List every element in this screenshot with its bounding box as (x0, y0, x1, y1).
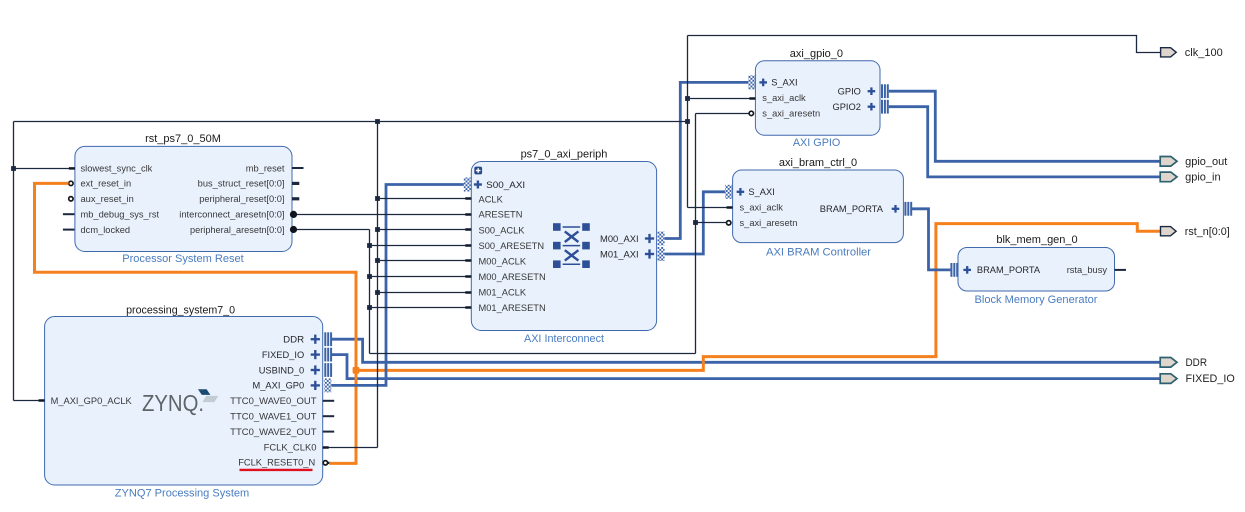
hatch S_AXI axi_bram_ctrl_0 (725, 185, 732, 199)
svg-text:BRAM_PORTA: BRAM_PORTA (977, 265, 1041, 275)
svg-text:M_AXI_GP0_ACLK: M_AXI_GP0_ACLK (51, 396, 133, 406)
wire clock net to s_axi_aclk axi_gpio (688, 97, 756, 100)
pin stub dcm_locked (63, 229, 75, 231)
IP block axi_gpio_0 (AXI GPIO) (755, 48, 880, 149)
hatch DDR (324, 332, 332, 346)
junction aresetn/M00_ARESETN (367, 274, 372, 279)
svg-text:ZYNQ7 Processing System: ZYNQ7 Processing System (115, 487, 250, 499)
svg-text:FIXED_IO: FIXED_IO (1186, 373, 1236, 385)
junction clock/M00_ACLK (375, 258, 380, 263)
svg-text:GPIO2: GPIO2 (832, 102, 860, 112)
svg-text:BRAM_PORTA: BRAM_PORTA (820, 204, 884, 214)
junction clock/M01_ACLK (375, 290, 380, 295)
wire peripheral_aresetn horizontal (292, 229, 370, 231)
svg-text:peripheral_reset[0:0]: peripheral_reset[0:0] (199, 194, 284, 204)
svg-text:aux_reset_in: aux_reset_in (81, 194, 134, 204)
junction clock right/top (685, 119, 690, 124)
pin circle aux_reset_in (69, 197, 73, 201)
svg-text:FIXED_IO: FIXED_IO (262, 350, 304, 360)
svg-text:Block Memory Generator: Block Memory Generator (975, 294, 1098, 306)
hatch BRAM_PORTA axi_bram_ctrl_0 (904, 202, 912, 216)
hatch S00_AXI (464, 178, 471, 192)
wire peripheral_aresetn vertical (369, 230, 371, 354)
red underline FCLK_RESET0_N (240, 469, 313, 471)
svg-text:ACLK: ACLK (479, 194, 504, 204)
svg-text:ARESETN: ARESETN (479, 210, 523, 220)
port rst_n[0:0] (1161, 226, 1230, 238)
svg-text:S00_ARESETN: S00_ARESETN (479, 241, 545, 251)
wire BRAM_PORTA bus (911, 209, 950, 270)
pin stub mb_debug_sys_rst (63, 213, 75, 215)
svg-text:rsta_busy: rsta_busy (1067, 265, 1108, 275)
hatch S_AXI axi_gpio_0 (748, 75, 755, 89)
junction aresetn/s_axi_aresetn bram (693, 220, 698, 225)
svg-text:ps7_0_axi_periph: ps7_0_axi_periph (521, 148, 608, 160)
port gpio_in (1160, 172, 1220, 184)
crossbar icon AXI Interconnect (553, 223, 590, 268)
svg-text:processing_system7_0: processing_system7_0 (126, 304, 235, 316)
svg-text:M00_AXI: M00_AXI (600, 234, 639, 244)
expand button ps7_0_axi_periph (474, 167, 482, 175)
port gpio_out (1160, 156, 1227, 168)
wire clock net to slowest_sync_clk (14, 167, 75, 170)
junction clock/s_axi_aclk gpio (685, 96, 690, 101)
svg-text:s_axi_aresetn: s_axi_aresetn (740, 218, 798, 228)
IP block blk_mem_gen_0 (Block Memory Generator) (958, 234, 1115, 306)
svg-text:M01_ARESETN: M01_ARESETN (479, 303, 546, 313)
output bullet peripheral_aresetn (290, 226, 297, 233)
pin stub TTC0_WAVE1_OUT (323, 415, 335, 417)
svg-text:DDR: DDR (1186, 357, 1208, 369)
wire M00_AXI bus (to axi_gpio S_AXI) (665, 82, 749, 238)
wire clock net to M00_ACLK (378, 259, 472, 262)
svg-text:clk_100: clk_100 (1185, 47, 1223, 59)
hatch USBIND_0 (324, 363, 332, 377)
svg-text:axi_bram_ctrl_0: axi_bram_ctrl_0 (779, 157, 857, 169)
svg-text:s_axi_aclk: s_axi_aclk (762, 93, 806, 103)
hatch BRAM_PORTA blk_mem_gen_0 (950, 263, 958, 277)
svg-text:mb_debug_sys_rst: mb_debug_sys_rst (81, 210, 160, 220)
wire clock net top horizontal (14, 121, 688, 123)
pin stub TTC0_WAVE0_OUT (323, 400, 335, 402)
svg-text:S_AXI: S_AXI (771, 78, 797, 88)
svg-text:M00_ARESETN: M00_ARESETN (479, 272, 546, 282)
port clk_100 (1161, 47, 1223, 59)
svg-text:bus_struct_reset[0:0]: bus_struct_reset[0:0] (198, 179, 285, 189)
svg-text:S00_ACLK: S00_ACLK (479, 225, 526, 235)
svg-text:S_AXI: S_AXI (748, 187, 774, 197)
svg-text:GPIO: GPIO (838, 87, 861, 97)
wire clock net to M_AXI_GP0_ACLK (14, 399, 45, 402)
svg-text:FCLK_CLK0: FCLK_CLK0 (264, 442, 317, 452)
pin stub rsta_busy (1115, 269, 1127, 271)
svg-text:rst_n[0:0]: rst_n[0:0] (1185, 226, 1230, 238)
port FIXED_IO (1160, 373, 1235, 385)
hatch GPIO2 (881, 100, 889, 114)
pin stub bus_struct_reset[0:0] (292, 182, 299, 185)
hatch GPIO (881, 84, 889, 98)
svg-text:AXI Interconnect: AXI Interconnect (524, 333, 605, 345)
svg-text:ext_reset_in: ext_reset_in (81, 179, 132, 189)
IP block axi_bram_ctrl_0 (AXI BRAM Controller) (733, 157, 904, 259)
hatch FIXED_IO (324, 348, 332, 362)
svg-text:gpio_in: gpio_in (1185, 172, 1220, 184)
wire clock net from FCLK_CLK0 (323, 446, 378, 449)
IP block ps7_0_axi_periph (AXI Interconnect) (471, 148, 656, 344)
wire clock net to S00_ACLK (378, 228, 472, 231)
pin circle ext_reset_in (69, 181, 73, 185)
wire peripheral_aresetn to S00_ARESETN (370, 244, 472, 247)
wire M01_AXI bus (to axi_bram_ctrl S_AXI) (665, 192, 726, 254)
junction clock center/top (375, 119, 380, 124)
IP block processing_system7_0 (ZYNQ7 Processing System) (45, 304, 323, 499)
svg-text:gpio_out: gpio_out (1185, 156, 1227, 168)
wire clock net center vertical (377, 122, 379, 448)
hatch M00_AXI (658, 232, 665, 246)
hatch M_AXI_GP0 (324, 378, 331, 392)
svg-text:AXI BRAM Controller: AXI BRAM Controller (766, 247, 871, 259)
svg-text:S00_AXI: S00_AXI (486, 180, 525, 190)
svg-text:Processor System Reset: Processor System Reset (122, 253, 244, 265)
output bullet interconnect_aresetn (290, 211, 297, 218)
wire clock net right vertical (687, 36, 689, 208)
junction aresetn/S00_ARESETN (367, 243, 372, 248)
svg-text:peripheral_aresetn[0:0]: peripheral_aresetn[0:0] (190, 225, 285, 235)
svg-text:blk_mem_gen_0: blk_mem_gen_0 (996, 234, 1077, 246)
svg-text:axi_gpio_0: axi_gpio_0 (790, 48, 843, 60)
svg-text:DDR: DDR (283, 335, 304, 345)
svg-text:M01_ACLK: M01_ACLK (479, 287, 527, 297)
pin stub peripheral_reset[0:0] (292, 197, 299, 200)
pin circle s_axi_aresetn axi_bram_ctrl_0 (727, 221, 731, 225)
svg-text:slowest_sync_clk: slowest_sync_clk (81, 163, 153, 173)
junction orange reset net (353, 367, 360, 374)
svg-text:M00_ACLK: M00_ACLK (479, 256, 527, 266)
svg-text:mb_reset: mb_reset (246, 163, 285, 173)
wire DDR bus to DDR port (331, 339, 1160, 362)
pin stub TTC0_WAVE2_OUT (323, 431, 335, 433)
svg-text:AXI GPIO: AXI GPIO (793, 137, 841, 149)
junction clock/slowest_sync_clk (11, 166, 16, 171)
wire peripheral_aresetn bottom run (370, 353, 696, 355)
wire peripheral_aresetn to s_axi_aresetn axi_gpio (696, 113, 750, 115)
pin circle FCLK_RESET0_N (323, 461, 330, 465)
wire clock net top run to clk_100 (688, 36, 1161, 53)
ZYNQ logo (142, 389, 218, 416)
wire interconnect_aresetn to ARESETN (292, 213, 471, 216)
svg-text:TTC0_WAVE0_OUT: TTC0_WAVE0_OUT (230, 396, 317, 406)
wire peripheral_aresetn to s_axi_aresetn axi_bram (696, 222, 727, 224)
wire GPIO2 bus to gpio_in (889, 107, 1161, 177)
wire S00_AXI bus (M_AXI_GP0 to S00_AXI) (331, 185, 464, 386)
svg-text:M01_AXI: M01_AXI (600, 249, 639, 259)
svg-text:rst_ps7_0_50M: rst_ps7_0_50M (145, 133, 221, 145)
wire peripheral_aresetn to M01_ARESETN (370, 306, 472, 309)
wire peripheral_aresetn to M00_ARESETN (370, 275, 472, 278)
svg-text:s_axi_aresetn: s_axi_aresetn (762, 109, 820, 119)
junction clock/S00_ACLK (375, 227, 380, 232)
svg-text:TTC0_WAVE1_OUT: TTC0_WAVE1_OUT (230, 412, 317, 422)
wire orange reset net to rst_n port (356, 224, 1161, 371)
wire orange reset net ext_reset_in branch (35, 183, 357, 463)
wire clock net to s_axi_aclk axi_bram (688, 206, 733, 209)
wire GPIO bus to gpio_out (889, 91, 1161, 161)
junction aresetn/M01_ARESETN (367, 305, 372, 310)
port DDR (1160, 357, 1207, 369)
svg-text:dcm_locked: dcm_locked (81, 225, 131, 235)
hatch M01_AXI (658, 247, 665, 261)
svg-text:FCLK_RESET0_N: FCLK_RESET0_N (238, 458, 315, 468)
pin stub mb_reset (292, 167, 304, 169)
svg-text:ZYNQ.: ZYNQ. (142, 390, 204, 416)
wire clock net left vertical (13, 122, 15, 401)
wire clock net to M01_ACLK (378, 291, 472, 294)
wire peripheral_aresetn right vertical (695, 114, 697, 354)
junction clock/ACLK (375, 196, 380, 201)
svg-text:s_axi_aclk: s_axi_aclk (740, 203, 784, 213)
IP block rst_ps7_0_50M (Processor System Reset) (75, 133, 292, 265)
svg-text:TTC0_WAVE2_OUT: TTC0_WAVE2_OUT (230, 427, 317, 437)
svg-text:USBIND_0: USBIND_0 (259, 365, 304, 375)
svg-text:M_AXI_GP0: M_AXI_GP0 (253, 381, 305, 391)
pin circle s_axi_aresetn axi_gpio_0 (749, 111, 753, 115)
wire clock net to ACLK (378, 197, 472, 200)
svg-text:interconnect_aresetn[0:0]: interconnect_aresetn[0:0] (179, 210, 284, 220)
wire FIXED_IO bus to FIXED_IO port (331, 355, 1160, 379)
